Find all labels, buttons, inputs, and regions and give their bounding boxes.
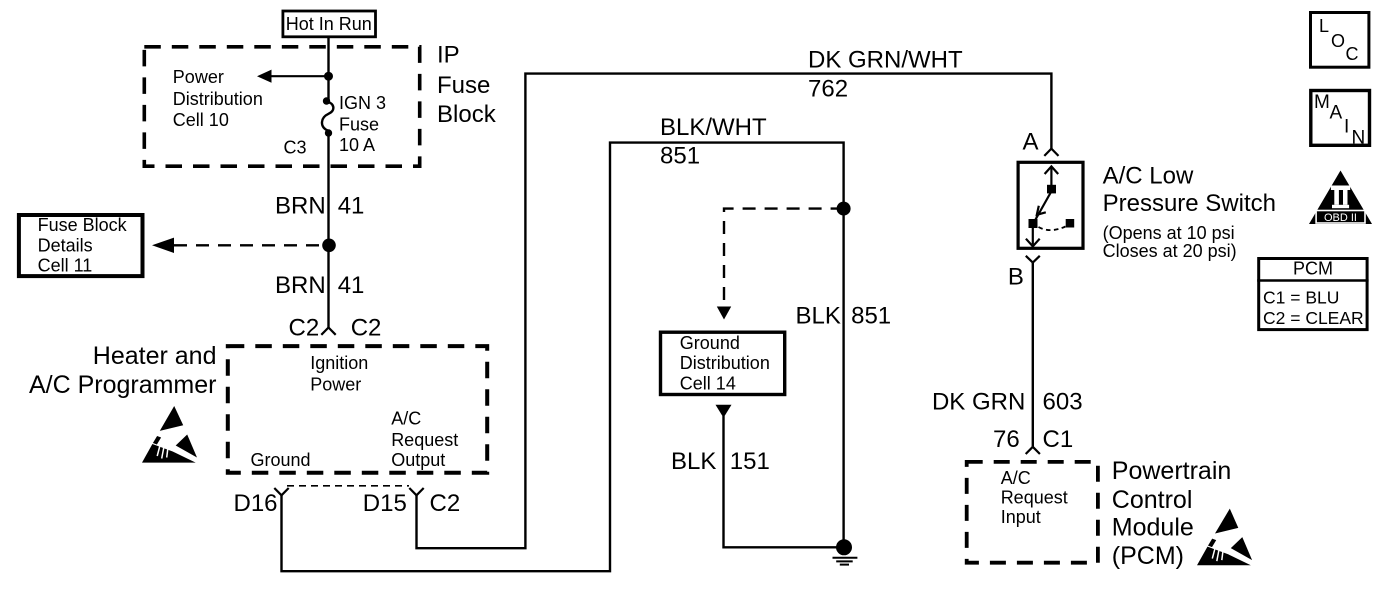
Fuse Block Details box	[19, 215, 143, 276]
svg-text:Ground: Ground	[251, 450, 311, 470]
svg-text:A/C Programmer: A/C Programmer	[29, 371, 217, 399]
switch internals	[1026, 166, 1074, 246]
BLK 151 label	[671, 448, 770, 475]
Hot In Run box	[283, 11, 376, 37]
C2 C2 connector labels	[289, 314, 382, 341]
svg-text:Fuse: Fuse	[437, 72, 490, 99]
PCM legend box	[1257, 258, 1368, 329]
svg-text:Heater and: Heater and	[93, 342, 217, 370]
svg-text:Input: Input	[1001, 507, 1041, 527]
svg-text:Block: Block	[437, 101, 497, 128]
LOC box	[1311, 13, 1369, 68]
svg-text:Pressure Switch: Pressure Switch	[1103, 190, 1276, 217]
wire from fuse down to C2 connector	[327, 133, 329, 328]
Ground Distribution Cell 14 box	[661, 332, 785, 394]
svg-text:Request: Request	[1001, 488, 1068, 508]
svg-text:41: 41	[338, 272, 365, 299]
svg-text:BRN: BRN	[275, 272, 326, 299]
svg-text:(Opens at 10 psi: (Opens at 10 psi	[1103, 223, 1235, 243]
svg-text:Details: Details	[38, 235, 93, 255]
fuse IGN3	[322, 97, 333, 136]
svg-text:Ignition: Ignition	[310, 353, 368, 373]
svg-text:Fuse Block: Fuse Block	[38, 215, 128, 235]
svg-text:BLK: BLK	[796, 302, 841, 329]
svg-text:IP: IP	[437, 42, 460, 69]
wire D15 to A/C switch path	[417, 74, 1052, 549]
svg-text:OBD II: OBD II	[1324, 212, 1357, 224]
ESD symbol (PCM)	[1197, 509, 1252, 566]
svg-text:C3: C3	[283, 138, 306, 158]
svg-text:Control: Control	[1112, 486, 1193, 514]
connector A chevron	[1044, 149, 1058, 156]
DK GRN/WHT 762 label	[808, 47, 963, 103]
svg-text:Power: Power	[310, 375, 361, 395]
Heater and A/C Programmer label	[29, 342, 217, 399]
svg-text:C: C	[1346, 44, 1359, 64]
svg-text:C1 = BLU: C1 = BLU	[1263, 287, 1339, 307]
svg-text:C2: C2	[351, 314, 382, 341]
svg-text:Cell 11: Cell 11	[38, 255, 93, 275]
svg-text:BLK: BLK	[671, 448, 716, 475]
IP Fuse Block label	[437, 42, 497, 129]
svg-text:Module: Module	[1112, 514, 1194, 542]
svg-text:(PCM): (PCM)	[1112, 542, 1184, 570]
MAIN box	[1311, 91, 1370, 149]
fuse labels	[339, 93, 386, 155]
BLK 151 wire	[724, 416, 844, 547]
D15 connector Y	[409, 488, 423, 495]
svg-text:A: A	[1330, 103, 1343, 124]
BLK/WHT 851 label	[660, 114, 767, 170]
svg-text:Hot In Run: Hot In Run	[286, 14, 372, 34]
wire from Hot In Run down to fuse	[327, 37, 329, 100]
BLK 851 label	[796, 302, 892, 329]
svg-text:DK GRN: DK GRN	[932, 388, 1025, 415]
svg-text:A: A	[1023, 129, 1039, 156]
connector B Y	[1026, 256, 1040, 263]
svg-text:DK GRN/WHT: DK GRN/WHT	[808, 47, 963, 74]
svg-text:O: O	[1331, 31, 1345, 51]
junction dot at arrow	[324, 72, 333, 81]
svg-text:D16: D16	[234, 490, 278, 517]
svg-text:Ground: Ground	[680, 333, 740, 353]
A/C Request Input label	[1001, 468, 1068, 527]
svg-text:Powertrain: Powertrain	[1112, 457, 1232, 485]
junction dot BLK	[837, 202, 851, 216]
arrow below Ground Distribution box	[716, 405, 732, 418]
svg-text:603: 603	[1043, 388, 1083, 415]
arrow to Power Distribution	[257, 70, 329, 83]
svg-text:76: 76	[993, 426, 1020, 453]
svg-text:PCM: PCM	[1293, 258, 1333, 278]
76 C1 labels	[993, 426, 1073, 453]
ESD symbol (heater)	[142, 406, 197, 463]
svg-text:762: 762	[808, 76, 848, 103]
junction dot BRN	[322, 239, 336, 253]
short dashed line between D16 and D15	[287, 485, 409, 487]
svg-text:41: 41	[338, 193, 365, 220]
svg-text:Fuse: Fuse	[339, 114, 379, 134]
svg-text:851: 851	[660, 143, 700, 170]
DK GRN 603 label	[932, 388, 1083, 415]
svg-text:151: 151	[730, 448, 770, 475]
svg-text:D15: D15	[363, 490, 407, 517]
svg-text:A/C: A/C	[1001, 468, 1031, 488]
Ignition Power label	[310, 353, 368, 394]
svg-text:Distribution: Distribution	[680, 353, 770, 373]
connector 76/C1 chevron	[1026, 447, 1040, 454]
svg-text:Cell 10: Cell 10	[173, 110, 229, 130]
A/C Request Output label	[391, 409, 458, 470]
svg-text:Cell 14: Cell 14	[680, 373, 736, 393]
svg-text:Distribution: Distribution	[173, 89, 263, 109]
svg-text:Closes at 20 psi): Closes at 20 psi)	[1103, 241, 1237, 261]
Power Distribution Cell 10 label	[173, 67, 263, 130]
svg-text:L: L	[1319, 16, 1329, 36]
A/C Low Pressure Switch label	[1103, 162, 1276, 261]
BRN 41 label (upper)	[275, 193, 364, 220]
svg-text:M: M	[1314, 92, 1330, 113]
wire B to PCM	[1032, 263, 1034, 447]
svg-text:C2 = CLEAR: C2 = CLEAR	[1263, 308, 1364, 328]
svg-text:Request: Request	[391, 430, 458, 450]
svg-text:10 A: 10 A	[339, 135, 375, 155]
dashed arrow to Fuse Block Details	[152, 238, 322, 253]
svg-text:BRN: BRN	[275, 193, 326, 220]
svg-text:BLK/WHT: BLK/WHT	[660, 114, 767, 141]
D16 D15 C2 labels	[234, 490, 461, 517]
Powertrain Control Module label	[1112, 457, 1232, 570]
svg-text:C2: C2	[289, 314, 320, 341]
BRN 41 label (lower)	[275, 272, 364, 299]
svg-text:A/C: A/C	[391, 409, 421, 429]
svg-text:N: N	[1352, 128, 1366, 149]
svg-text:C1: C1	[1043, 426, 1074, 453]
svg-text:C2: C2	[430, 490, 461, 517]
svg-text:IGN 3: IGN 3	[339, 93, 386, 113]
IP Fuse Block dashed box	[144, 47, 419, 166]
svg-text:A/C Low: A/C Low	[1103, 162, 1194, 189]
OBD II triangle	[1309, 171, 1372, 225]
svg-text:I: I	[1344, 117, 1349, 138]
dashed wire to Ground Distribution	[717, 209, 844, 320]
Heater dashed box	[228, 346, 487, 473]
svg-text:851: 851	[851, 302, 891, 329]
svg-text:B: B	[1008, 264, 1024, 291]
wire D16 ground path	[282, 143, 844, 572]
svg-text:Power: Power	[173, 67, 224, 87]
ground symbol	[833, 558, 858, 565]
D16 connector Y	[274, 488, 288, 495]
svg-text:Output: Output	[391, 450, 445, 470]
ground junction dot	[836, 539, 852, 555]
A/C Low Pressure Switch box	[1018, 162, 1083, 248]
PCM dashed box	[967, 462, 1098, 563]
connector C2 chevron	[321, 328, 335, 335]
